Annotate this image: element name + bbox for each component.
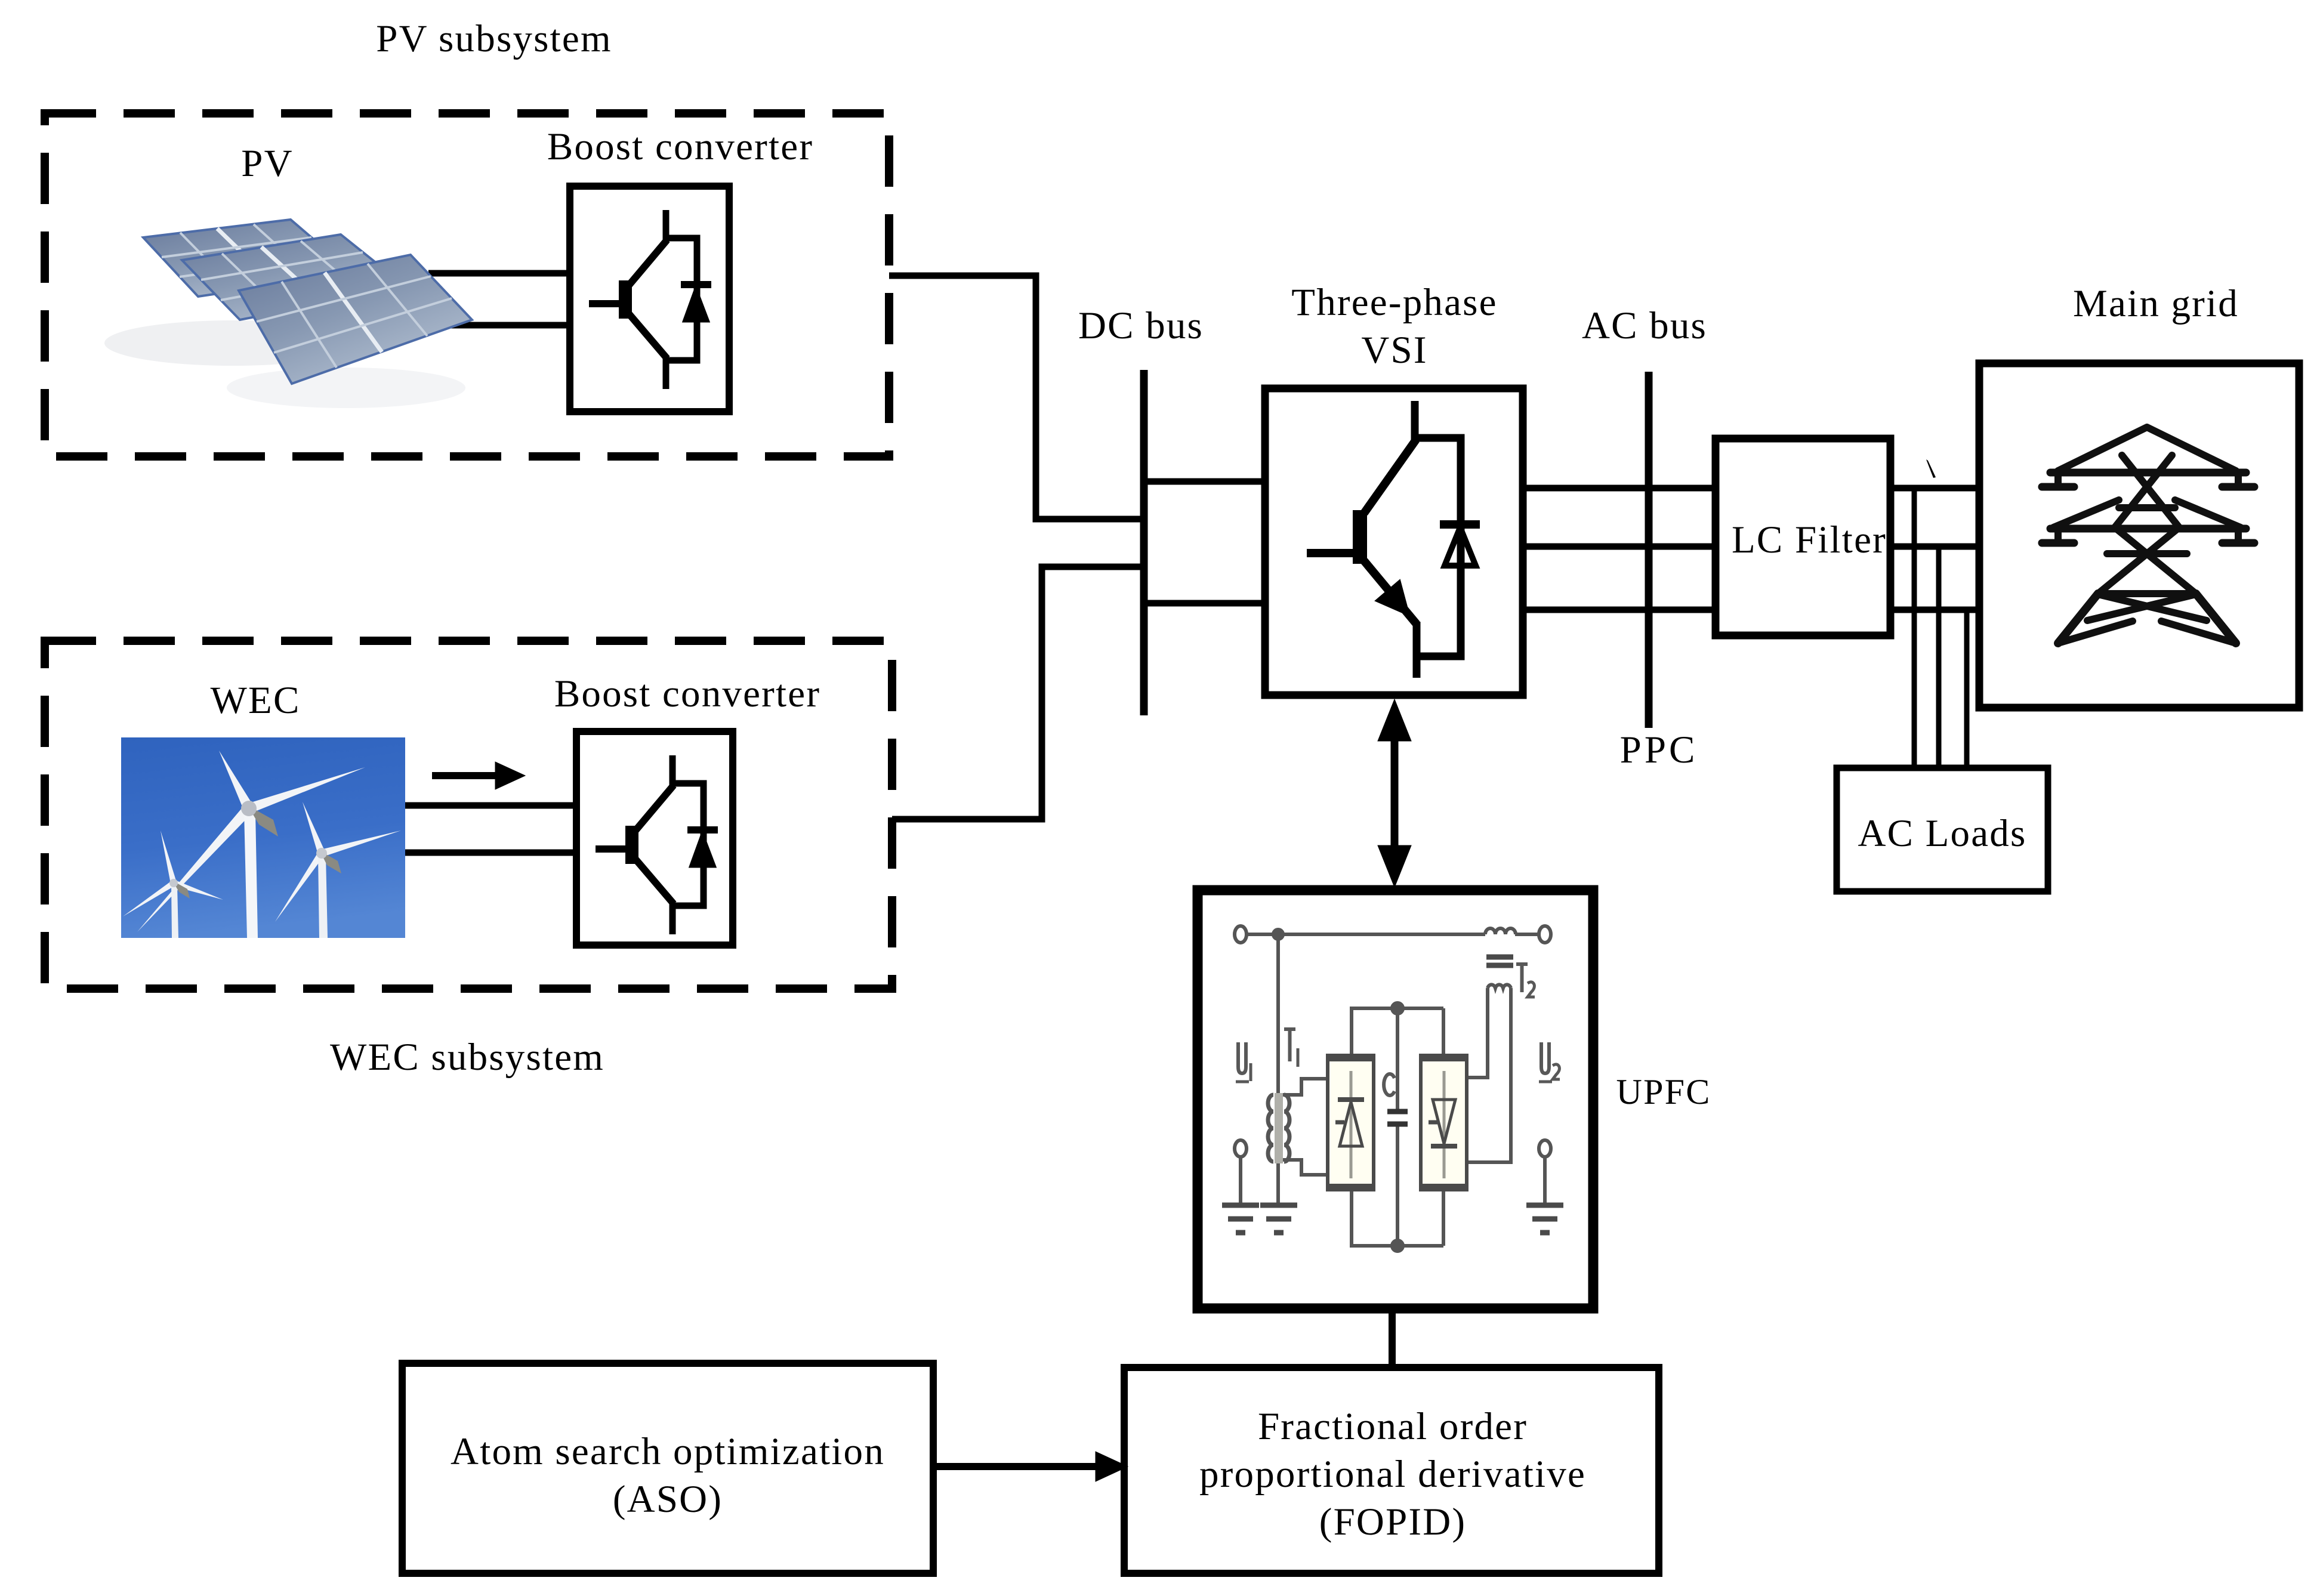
- svg-text:UPFC: UPFC: [1616, 1072, 1711, 1112]
- svg-text:(ASO): (ASO): [613, 1478, 723, 1521]
- svg-text:(FOPID): (FOPID): [1319, 1501, 1467, 1543]
- svg-text:Fractional order: Fractional order: [1258, 1405, 1528, 1448]
- svg-text:PPC: PPC: [1620, 728, 1698, 771]
- svg-text:PV subsystem: PV subsystem: [376, 17, 612, 60]
- svg-text:DC bus: DC bus: [1078, 304, 1204, 347]
- svg-text:VSI: VSI: [1361, 329, 1427, 372]
- svg-text:Boost converter: Boost converter: [547, 125, 813, 168]
- svg-text:Atom search optimization: Atom search optimization: [451, 1430, 885, 1473]
- svg-text:WEC subsystem: WEC subsystem: [330, 1036, 604, 1079]
- svg-text:AC bus: AC bus: [1582, 304, 1707, 347]
- svg-text:Boost converter: Boost converter: [554, 672, 820, 715]
- svg-text:Three-phase: Three-phase: [1291, 281, 1497, 324]
- svg-text:Main grid: Main grid: [2073, 282, 2239, 325]
- svg-text:proportional derivative: proportional derivative: [1199, 1453, 1586, 1496]
- svg-text:PV: PV: [241, 142, 294, 185]
- svg-text:LC Filter: LC Filter: [1732, 518, 1887, 561]
- svg-text:AC Loads: AC Loads: [1858, 812, 2027, 855]
- svg-text:WEC: WEC: [210, 679, 300, 722]
